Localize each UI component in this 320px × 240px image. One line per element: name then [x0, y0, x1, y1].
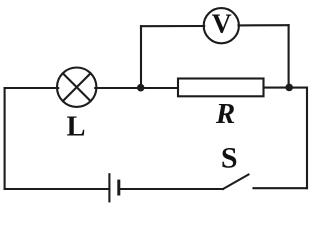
wire battery to switch [119, 188, 223, 190]
resistor R box [178, 79, 264, 97]
wire top-left horizontal to lamp [5, 87, 59, 89]
svg-text:L: L [66, 111, 85, 142]
wire bottom-left to battery [5, 188, 110, 190]
svg-text:S: S [221, 141, 238, 174]
node B junction dot [285, 84, 293, 92]
battery cell long plate [108, 173, 110, 202]
wire lamp to node A [95, 87, 177, 89]
lamp cross stroke 2 [63, 73, 91, 101]
svg-text:V: V [212, 7, 232, 38]
node A junction dot [137, 84, 145, 92]
wire left vertical [4, 88, 6, 189]
wire switch to right corner [254, 187, 308, 189]
wire voltmeter branch top-right [239, 24, 289, 26]
battery cell short thick plate [117, 180, 120, 196]
lamp cross stroke 1 [63, 73, 91, 101]
switch S blade (open) [223, 175, 249, 190]
wire voltmeter branch right drop [288, 25, 290, 87]
wire voltmeter branch riser [140, 26, 142, 88]
svg-text:R: R [215, 98, 235, 130]
voltmeter V circle [204, 8, 239, 43]
wire right vertical [306, 88, 308, 189]
wire voltmeter branch top-left [141, 25, 204, 27]
wire resistor to node B [264, 87, 307, 89]
lamp L circle [57, 68, 96, 107]
